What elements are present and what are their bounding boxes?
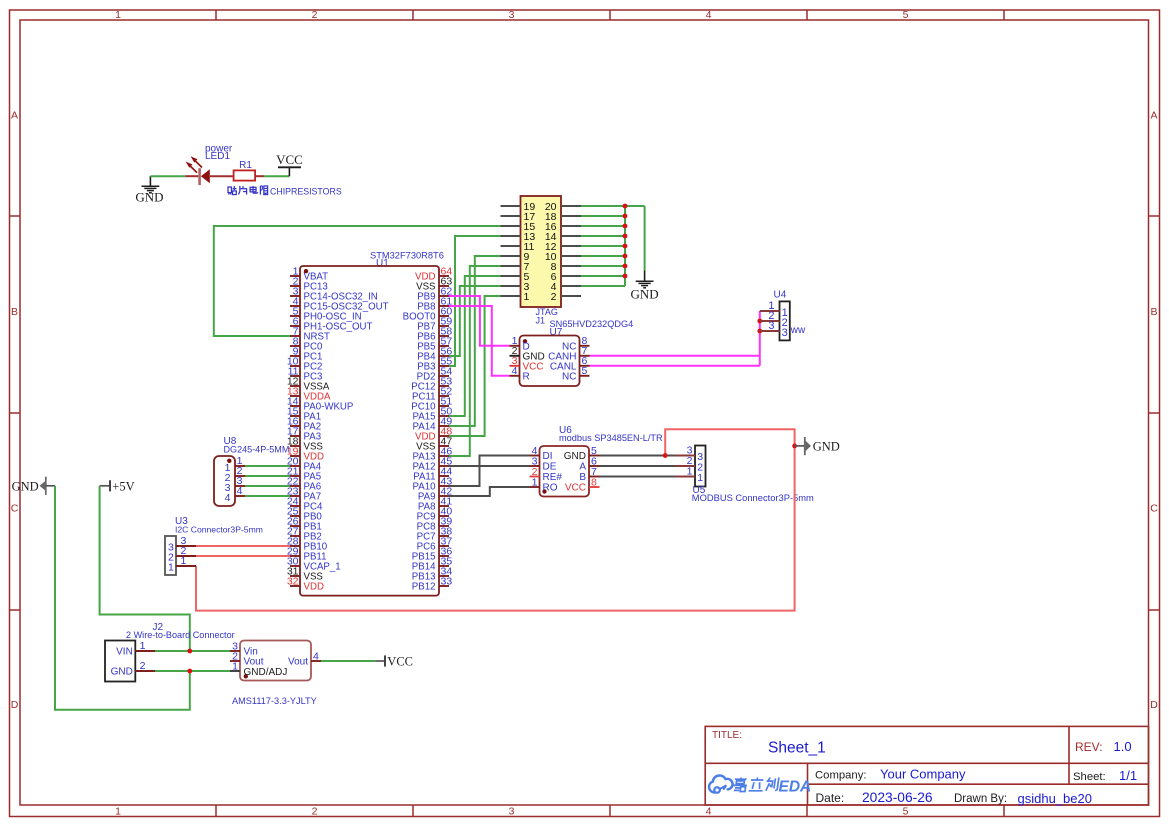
svg-text:modbus SP3485EN-L/TR: modbus SP3485EN-L/TR	[559, 433, 663, 443]
wire R1 to VCC	[264, 175, 289, 177]
connector J2 2 Wire-to-Board Connector	[105, 622, 235, 682]
svg-text:1: 1	[697, 472, 703, 484]
wire U1 PA12 to U6 DE	[449, 465, 530, 467]
svg-text:Vout: Vout	[288, 657, 308, 668]
svg-text:EDA: EDA	[779, 779, 812, 796]
svg-text:GND: GND	[135, 190, 163, 205]
svg-text:VCC: VCC	[387, 655, 413, 669]
svg-text:GND: GND	[631, 287, 659, 302]
wire U6 A to U5 pin2	[600, 465, 676, 467]
svg-text:B: B	[1150, 306, 1157, 318]
svg-text:ww: ww	[790, 325, 806, 336]
svg-text:1.0: 1.0	[1114, 739, 1132, 754]
wire U1 PA10 to U6 DI	[449, 456, 530, 487]
svg-text:4: 4	[237, 485, 243, 497]
svg-text:TITLE:: TITLE:	[712, 730, 742, 741]
svg-text:R: R	[523, 371, 530, 382]
svg-text:3: 3	[509, 805, 515, 817]
svg-text:GND: GND	[564, 451, 586, 462]
svg-text:Sheet:: Sheet:	[1073, 771, 1106, 783]
wire U6 B to U5 pin1	[600, 476, 676, 478]
svg-text:32: 32	[287, 575, 299, 587]
svg-text:REV:: REV:	[1075, 740, 1103, 754]
wire U1 PA9 to U6 RO	[449, 487, 530, 496]
CAN transceiver U7 SN65HVD232QDG4	[510, 319, 634, 386]
connector U4	[760, 290, 790, 341]
svg-text:1/1: 1/1	[1119, 768, 1137, 783]
svg-text:Sheet_1: Sheet_1	[768, 740, 826, 757]
power VCC (3.3V output)	[375, 655, 413, 669]
wire U7 CANH to U4	[590, 355, 760, 357]
svg-text:D: D	[1150, 699, 1158, 711]
svg-text:1: 1	[232, 660, 238, 672]
svg-text:Company:: Company:	[815, 769, 867, 781]
svg-text:RO: RO	[543, 483, 558, 494]
svg-text:B: B	[11, 306, 18, 318]
wire U8.2 to U1 PA5	[245, 475, 290, 477]
label CHIPRESISTORS (CJK drawn as strokes)	[228, 186, 342, 197]
RS485 transceiver U6 modbus SP3485EN-L/TR	[530, 425, 664, 497]
svg-text:Date:: Date:	[816, 791, 845, 805]
svg-text:Your Company: Your Company	[880, 766, 966, 781]
svg-text:AMS1117-3.3-YJLTY: AMS1117-3.3-YJLTY	[232, 696, 317, 706]
MCU U1 STM32F730R8T6	[287, 251, 453, 596]
svg-text:3: 3	[509, 9, 515, 21]
JLCEDA logo	[709, 775, 811, 795]
svg-text:1: 1	[524, 291, 530, 303]
wire +5V to J2 VIN / AMS Vin	[100, 486, 190, 651]
connector U8 DG245-4P-5MM	[214, 436, 289, 506]
title block	[705, 726, 1148, 805]
svg-text:GND: GND	[12, 479, 39, 493]
connector U3 I2C Connector3P-5mm	[165, 516, 263, 575]
svg-text:VCC: VCC	[276, 152, 303, 167]
wire U3.2 to U1 PB11	[196, 555, 290, 557]
svg-text:U4: U4	[774, 290, 787, 301]
wire AMS Vout to VCC	[321, 660, 375, 662]
wire JTAG even pins to GND bus	[581, 205, 625, 207]
ground GND flag (right)	[795, 437, 840, 455]
svg-text:2: 2	[551, 291, 557, 303]
svg-text:2023-06-26: 2023-06-26	[862, 790, 933, 805]
svg-text:2: 2	[312, 805, 318, 817]
svg-text:8: 8	[591, 476, 597, 488]
ground GND (JTAG)	[631, 270, 659, 301]
svg-text:C: C	[1150, 503, 1158, 515]
svg-text:DG245-4P-5MM: DG245-4P-5MM	[224, 444, 290, 454]
svg-text:D: D	[11, 699, 19, 711]
svg-text:5: 5	[903, 9, 909, 21]
power +5V flag	[100, 479, 135, 493]
svg-text:2: 2	[312, 9, 318, 21]
junction dots U4	[757, 319, 762, 324]
svg-text:1: 1	[181, 555, 187, 567]
connector J1 JTAG	[501, 196, 582, 325]
svg-text:2 Wire-to-Board Connector: 2 Wire-to-Board Connector	[126, 630, 235, 640]
svg-text:B: B	[579, 472, 586, 483]
svg-text:1: 1	[115, 9, 121, 21]
svg-text:GND: GND	[111, 667, 133, 678]
svg-text:NC: NC	[562, 371, 576, 382]
wire GND to LED1	[150, 175, 185, 177]
wire J2 VIN to AMS Vin	[155, 650, 230, 652]
svg-text:4: 4	[225, 492, 231, 504]
wire JTAG3 to U1 PB4	[449, 286, 501, 356]
svg-text:+5V: +5V	[112, 479, 134, 493]
wire U1 PB8 to U7 R (CAN RX)	[449, 306, 510, 376]
wire GND flag to J2 GND	[55, 486, 190, 710]
svg-text:3: 3	[782, 327, 788, 339]
svg-text:33: 33	[441, 575, 453, 587]
svg-text:MODBUS Connector3P-5mm: MODBUS Connector3P-5mm	[692, 493, 814, 503]
svg-text:VIN: VIN	[116, 647, 133, 658]
LED LED1 power	[185, 144, 233, 186]
wire JTAG5 to U1 PA15	[449, 276, 501, 416]
svg-text:GND/ADJ: GND/ADJ	[244, 667, 288, 678]
svg-text:5: 5	[582, 365, 588, 377]
svg-text:5: 5	[903, 805, 909, 817]
wire JTAG11... none / JTAG9 to U1 PA14	[449, 256, 501, 426]
wire U3.3 to U1 PB10	[196, 545, 290, 547]
svg-text:A: A	[11, 110, 18, 122]
svg-text:1: 1	[687, 466, 693, 478]
svg-text:A: A	[579, 462, 586, 473]
wire U8.1 to U1 PA4	[245, 465, 290, 467]
power VCC (LED circuit)	[276, 152, 303, 176]
wire U7 CANL to U4	[590, 365, 760, 367]
wire U8.3 to U1 PA6	[245, 485, 290, 487]
svg-text:4: 4	[313, 650, 319, 662]
svg-text:GND: GND	[813, 439, 840, 453]
svg-text:R1: R1	[239, 160, 252, 171]
svg-text:4: 4	[706, 9, 712, 21]
junction dots JTAG bus	[623, 204, 628, 209]
connector U5 MODBUS Connector3P-5mm	[675, 445, 814, 503]
wire U4 pin bus	[759, 311, 761, 366]
svg-text:4: 4	[512, 365, 518, 377]
junction dot GND flag tap	[792, 444, 797, 449]
svg-text:3: 3	[768, 320, 774, 332]
ground GND (LED cathode)	[135, 176, 163, 204]
svg-text:2: 2	[140, 660, 146, 672]
svg-text:1: 1	[140, 640, 146, 652]
svg-text:LED1: LED1	[205, 151, 230, 162]
svg-text:DE: DE	[543, 462, 557, 473]
wire net I2C-GND (red) U3.1 to MODBUS GND	[196, 429, 795, 610]
junction dot +5V/VIN	[187, 649, 192, 654]
wire JTAG15 to U1 NRST	[214, 226, 501, 336]
svg-text:I2C Connector3P-5mm: I2C Connector3P-5mm	[175, 524, 263, 534]
svg-text:J1: J1	[536, 315, 546, 325]
resistor R1	[234, 160, 264, 181]
svg-text:1: 1	[115, 805, 121, 817]
svg-text:1: 1	[168, 562, 174, 574]
svg-text:DI: DI	[543, 451, 553, 462]
svg-text:Drawn By:: Drawn By:	[954, 793, 1007, 805]
svg-text:RE#: RE#	[543, 472, 563, 483]
wire U8.4 to U1 PA7	[245, 495, 290, 497]
wire U1 PB9 to U7 D (CAN TX)	[449, 296, 510, 346]
svg-text:VCC: VCC	[565, 483, 586, 494]
svg-text:PB12: PB12	[412, 582, 436, 593]
wire JTAG7 to U1 PA13	[449, 266, 501, 456]
svg-text:1: 1	[532, 476, 538, 488]
svg-text:CHIPRESISTORS: CHIPRESISTORS	[270, 187, 342, 197]
wire JTAG13 to U1 PB3	[449, 236, 501, 366]
junction dot GND/J2	[187, 669, 192, 674]
ground GND flag (left)	[12, 477, 55, 495]
svg-text:C: C	[11, 503, 19, 515]
wire J2 GND to AMS GND/ADJ	[155, 670, 230, 672]
regulator AMS1117-3.3-YJLTY	[230, 640, 321, 706]
svg-text:A: A	[1150, 110, 1157, 122]
svg-text:gsidhu_be20: gsidhu_be20	[1018, 791, 1092, 806]
svg-text:4: 4	[706, 805, 712, 817]
svg-text:VDD: VDD	[304, 582, 324, 593]
wire U6 GND to U5 pin3	[600, 455, 676, 457]
junction dot U6 GND wire	[663, 453, 668, 458]
wire JTAG1 to U1 VDD(48)	[449, 296, 501, 436]
